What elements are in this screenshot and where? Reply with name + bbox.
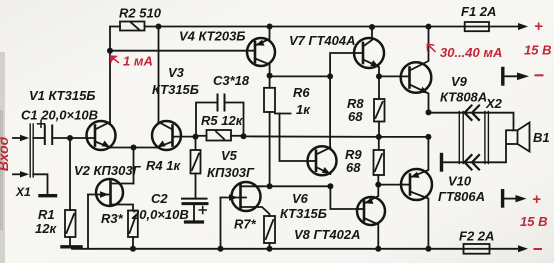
svg-text:КТ315Б: КТ315Б xyxy=(152,82,199,97)
transistor V3 (mirrored) xyxy=(152,121,196,150)
connector X2 upper chevrons xyxy=(465,106,480,120)
svg-text:R5 12к: R5 12к xyxy=(201,113,244,128)
wire R4 top lead xyxy=(195,137,197,150)
svg-text:V4 КТ203Б: V4 КТ203Б xyxy=(179,29,246,44)
node V6 emitter / V8 base junction xyxy=(327,183,333,189)
svg-text:X2: X2 xyxy=(485,96,503,111)
svg-text:F2 2А: F2 2А xyxy=(459,229,494,244)
node top rail junction V7 collector xyxy=(369,24,375,30)
node V4 collector junction xyxy=(267,73,273,79)
svg-text:R1: R1 xyxy=(38,207,55,222)
wire V7 base route xyxy=(330,53,354,76)
wire down to V2 drain xyxy=(133,148,135,184)
node R9 / V8 emitter / V10 base junction xyxy=(375,182,381,188)
ground bar under R1 xyxy=(62,245,81,248)
label minus bottom right (red) xyxy=(535,248,542,250)
resistor R8 xyxy=(374,76,385,121)
node R6 bottom on drain line xyxy=(267,183,273,189)
wire V2 gate to bottom rail xyxy=(87,195,89,249)
svg-text:R2 510: R2 510 xyxy=(119,6,162,21)
wire V5 drain line to V6 emitter node xyxy=(260,185,330,187)
node C1/R1/V1 base junction xyxy=(67,135,73,141)
resistor R5 xyxy=(207,130,232,141)
wire C1 to V1 base xyxy=(52,137,86,139)
wire V1 collector xyxy=(109,51,111,122)
transistor V9 xyxy=(401,27,432,113)
wire X2 lower line to speaker xyxy=(443,144,506,162)
wire V3 collector to top rail xyxy=(158,27,160,123)
wire R8 bottom lead xyxy=(378,122,380,137)
wire X2 upper line to speaker xyxy=(429,113,514,131)
svg-text:F1 2А: F1 2А xyxy=(461,4,496,19)
wire R1 top lead xyxy=(69,138,71,210)
svg-text:V9: V9 xyxy=(451,74,468,89)
wire V5 gate to bottom rail xyxy=(220,198,222,249)
svg-text:V6: V6 xyxy=(292,191,309,206)
resistor R3* xyxy=(128,211,138,238)
terminal plus output (lower right) xyxy=(503,191,527,206)
wire C3 left branch xyxy=(196,103,218,137)
svg-text:V8 ГТ402А: V8 ГТ402А xyxy=(294,227,361,242)
svg-text:V7 ГТ404А: V7 ГТ404А xyxy=(289,33,356,48)
wire V6 base branch xyxy=(280,114,308,162)
svg-text:R3*: R3* xyxy=(101,211,124,226)
transistor V8 (PNP) xyxy=(357,185,385,249)
wire V6 collector xyxy=(329,76,331,147)
node V7 emitter / R8 / V9 base junction xyxy=(376,73,382,79)
resistor R6 xyxy=(264,76,275,186)
connector X2 lower chevrons xyxy=(465,155,480,169)
C2 plus sign xyxy=(199,207,206,214)
capacitor C1 xyxy=(45,126,52,145)
svg-text:С2: С2 xyxy=(151,191,168,206)
label minus (red) xyxy=(536,74,543,76)
svg-text:КТ808А: КТ808А xyxy=(440,90,487,105)
node rail R7 xyxy=(267,246,273,252)
wire bottom rail xyxy=(72,248,464,250)
svg-text:С3*18: С3*18 xyxy=(213,73,250,88)
wire R5 right lead xyxy=(231,135,244,137)
wire R6 tap stub to V6 base xyxy=(275,113,291,115)
svg-text:R7*: R7* xyxy=(234,217,257,232)
svg-text:30...40 мА: 30...40 мА xyxy=(440,45,502,60)
resistor R9 xyxy=(374,137,385,175)
svg-text:Вход: Вход xyxy=(0,136,11,171)
transistor V4 (PNP) xyxy=(247,27,275,76)
svg-text:КП303Г: КП303Г xyxy=(207,165,255,180)
label 30...40 мА (red) with arrow xyxy=(427,44,435,51)
capacitor C2 xyxy=(182,199,207,204)
node rail V10 collector xyxy=(425,246,431,252)
speaker B1 xyxy=(506,123,530,152)
wire feedback line to R8/R9 node xyxy=(244,135,379,138)
svg-text:1 мА: 1 мА xyxy=(123,54,153,69)
svg-text:В1: В1 xyxy=(533,130,550,145)
svg-text:ГТ806А: ГТ806А xyxy=(438,189,485,204)
fuse F1 xyxy=(465,22,489,31)
svg-text:+: + xyxy=(532,191,541,208)
wire R1 bottom lead xyxy=(69,237,71,246)
connector X1 pin upper arrow xyxy=(13,135,29,141)
ground bar under C2 xyxy=(186,220,203,223)
wire V10 base xyxy=(378,184,400,186)
wire top supply rail xyxy=(110,26,120,28)
node top rail junction V4 emitter xyxy=(267,24,273,30)
wire R5 left lead xyxy=(196,135,207,137)
resistor R2 xyxy=(120,22,145,31)
wire R8/R9 node to output column xyxy=(379,136,429,138)
fuse F2 xyxy=(464,244,490,254)
svg-text:15 В: 15 В xyxy=(524,43,551,58)
svg-text:С1 20,0×10В: С1 20,0×10В xyxy=(21,108,98,123)
wire V8 base route xyxy=(330,186,357,209)
wire R3 bottom lead xyxy=(132,237,134,249)
svg-text:КТ315Б: КТ315Б xyxy=(280,206,327,221)
wire X1 lower contact to ground xyxy=(33,174,47,194)
node V7 base / V6 collector junction xyxy=(327,73,333,79)
svg-text:V2 КП303Г: V2 КП303Г xyxy=(74,163,142,178)
connector X1 socket bars xyxy=(30,124,33,177)
node top rail junction V9 collector xyxy=(426,24,432,30)
svg-text:15 В: 15 В xyxy=(520,214,547,229)
wire C2 bottom lead xyxy=(193,205,195,221)
wire V4 base line xyxy=(110,50,255,52)
connector X2 right pin bars xyxy=(485,112,489,164)
node A V1 collector / V4 base junction xyxy=(107,48,113,54)
wire V1-V3 emitters junction xyxy=(110,147,157,149)
resistor R1 xyxy=(65,210,76,237)
svg-text:68: 68 xyxy=(348,109,363,124)
arrowhead -15V bottom xyxy=(518,245,528,252)
svg-text:1к: 1к xyxy=(296,102,311,117)
svg-text:V10: V10 xyxy=(448,174,472,189)
wire X1 to C1 xyxy=(33,137,44,139)
node output column / feedback line xyxy=(425,134,431,140)
transistor V5 (JFET) xyxy=(221,182,270,216)
svg-text:V3: V3 xyxy=(168,65,185,80)
node R5 left / V3 base / R4 / C3 junction xyxy=(193,134,199,140)
svg-text:68: 68 xyxy=(346,160,361,175)
svg-text:R4 1к: R4 1к xyxy=(146,158,181,173)
svg-text:R6: R6 xyxy=(293,85,310,100)
wire R7 bottom lead xyxy=(269,243,271,249)
node rail V5 gate xyxy=(218,246,224,252)
node V9 emitter / X2 upper tap xyxy=(426,109,432,115)
node C3/R5 right junction xyxy=(241,133,247,139)
wire R4 to C2 xyxy=(195,174,197,199)
node rail R3 xyxy=(130,246,136,252)
transistor V10 (PNP) xyxy=(401,137,433,249)
svg-text:V5: V5 xyxy=(221,148,238,163)
connector X2 left pin bars xyxy=(459,112,463,164)
terminal minus output (upper right) xyxy=(503,69,529,85)
scan edge shading (decorative, unlabeled) xyxy=(0,52,5,263)
svg-text:X1: X1 xyxy=(15,185,31,199)
node R8/R9 junction xyxy=(376,134,382,140)
C1 plus sign xyxy=(38,120,45,127)
svg-text:12к: 12к xyxy=(35,221,57,236)
transistor V2 (JFET) xyxy=(88,179,134,211)
svg-text:+: + xyxy=(534,18,543,35)
resistor R4 xyxy=(191,150,201,174)
resistor R7* xyxy=(264,216,275,243)
wire R2 left lead down to V1 collector node xyxy=(109,27,111,51)
svg-text:V1 КТ315Б: V1 КТ315Б xyxy=(29,88,96,103)
capacitor C3 xyxy=(218,95,225,111)
label 1 мА (red) with arrow xyxy=(111,56,119,62)
wire V4 collector to V7 base branch xyxy=(270,75,331,77)
wire C3 right branch xyxy=(225,103,244,137)
wire R9 bottom lead xyxy=(377,175,379,185)
ground bar under X1 xyxy=(40,194,56,197)
connector X1 pin lower arrow xyxy=(13,171,29,177)
svg-text:20,0×10В: 20,0×10В xyxy=(131,207,189,222)
node rail V8 collector xyxy=(375,246,381,252)
transistor V1 xyxy=(87,121,116,150)
arrowhead +15V top xyxy=(518,23,528,30)
node top rail junction V3 collector xyxy=(156,24,162,30)
wire V9 base xyxy=(379,75,401,77)
node emitters junction xyxy=(131,145,137,151)
ground bar X2 lower left terminal xyxy=(440,155,443,171)
transistor V7 xyxy=(354,27,384,76)
transistor V6 xyxy=(308,146,337,175)
